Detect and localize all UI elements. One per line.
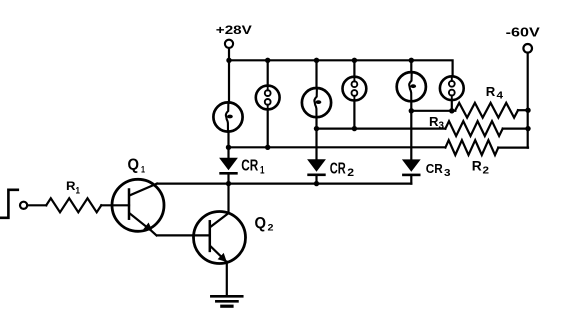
svg-text:4: 4 bbox=[497, 91, 504, 102]
svg-text:-60V: -60V bbox=[506, 24, 540, 39]
svg-text:CR: CR bbox=[241, 157, 258, 174]
svg-text:3: 3 bbox=[444, 167, 451, 179]
svg-text:CR: CR bbox=[426, 161, 443, 176]
svg-text:2: 2 bbox=[483, 165, 490, 177]
svg-text:1: 1 bbox=[141, 165, 146, 176]
svg-text:1: 1 bbox=[260, 164, 265, 176]
svg-text:CR: CR bbox=[330, 161, 346, 178]
svg-text:Q: Q bbox=[255, 215, 267, 232]
svg-text:Q: Q bbox=[128, 157, 140, 174]
svg-text:+28V: +28V bbox=[216, 23, 252, 37]
svg-text:2: 2 bbox=[347, 167, 354, 179]
svg-text:R: R bbox=[472, 158, 482, 174]
svg-text:3: 3 bbox=[439, 120, 445, 131]
svg-text:1: 1 bbox=[76, 186, 81, 197]
svg-text:R: R bbox=[486, 84, 496, 99]
svg-text:R: R bbox=[66, 179, 76, 193]
svg-text:2: 2 bbox=[268, 223, 274, 234]
